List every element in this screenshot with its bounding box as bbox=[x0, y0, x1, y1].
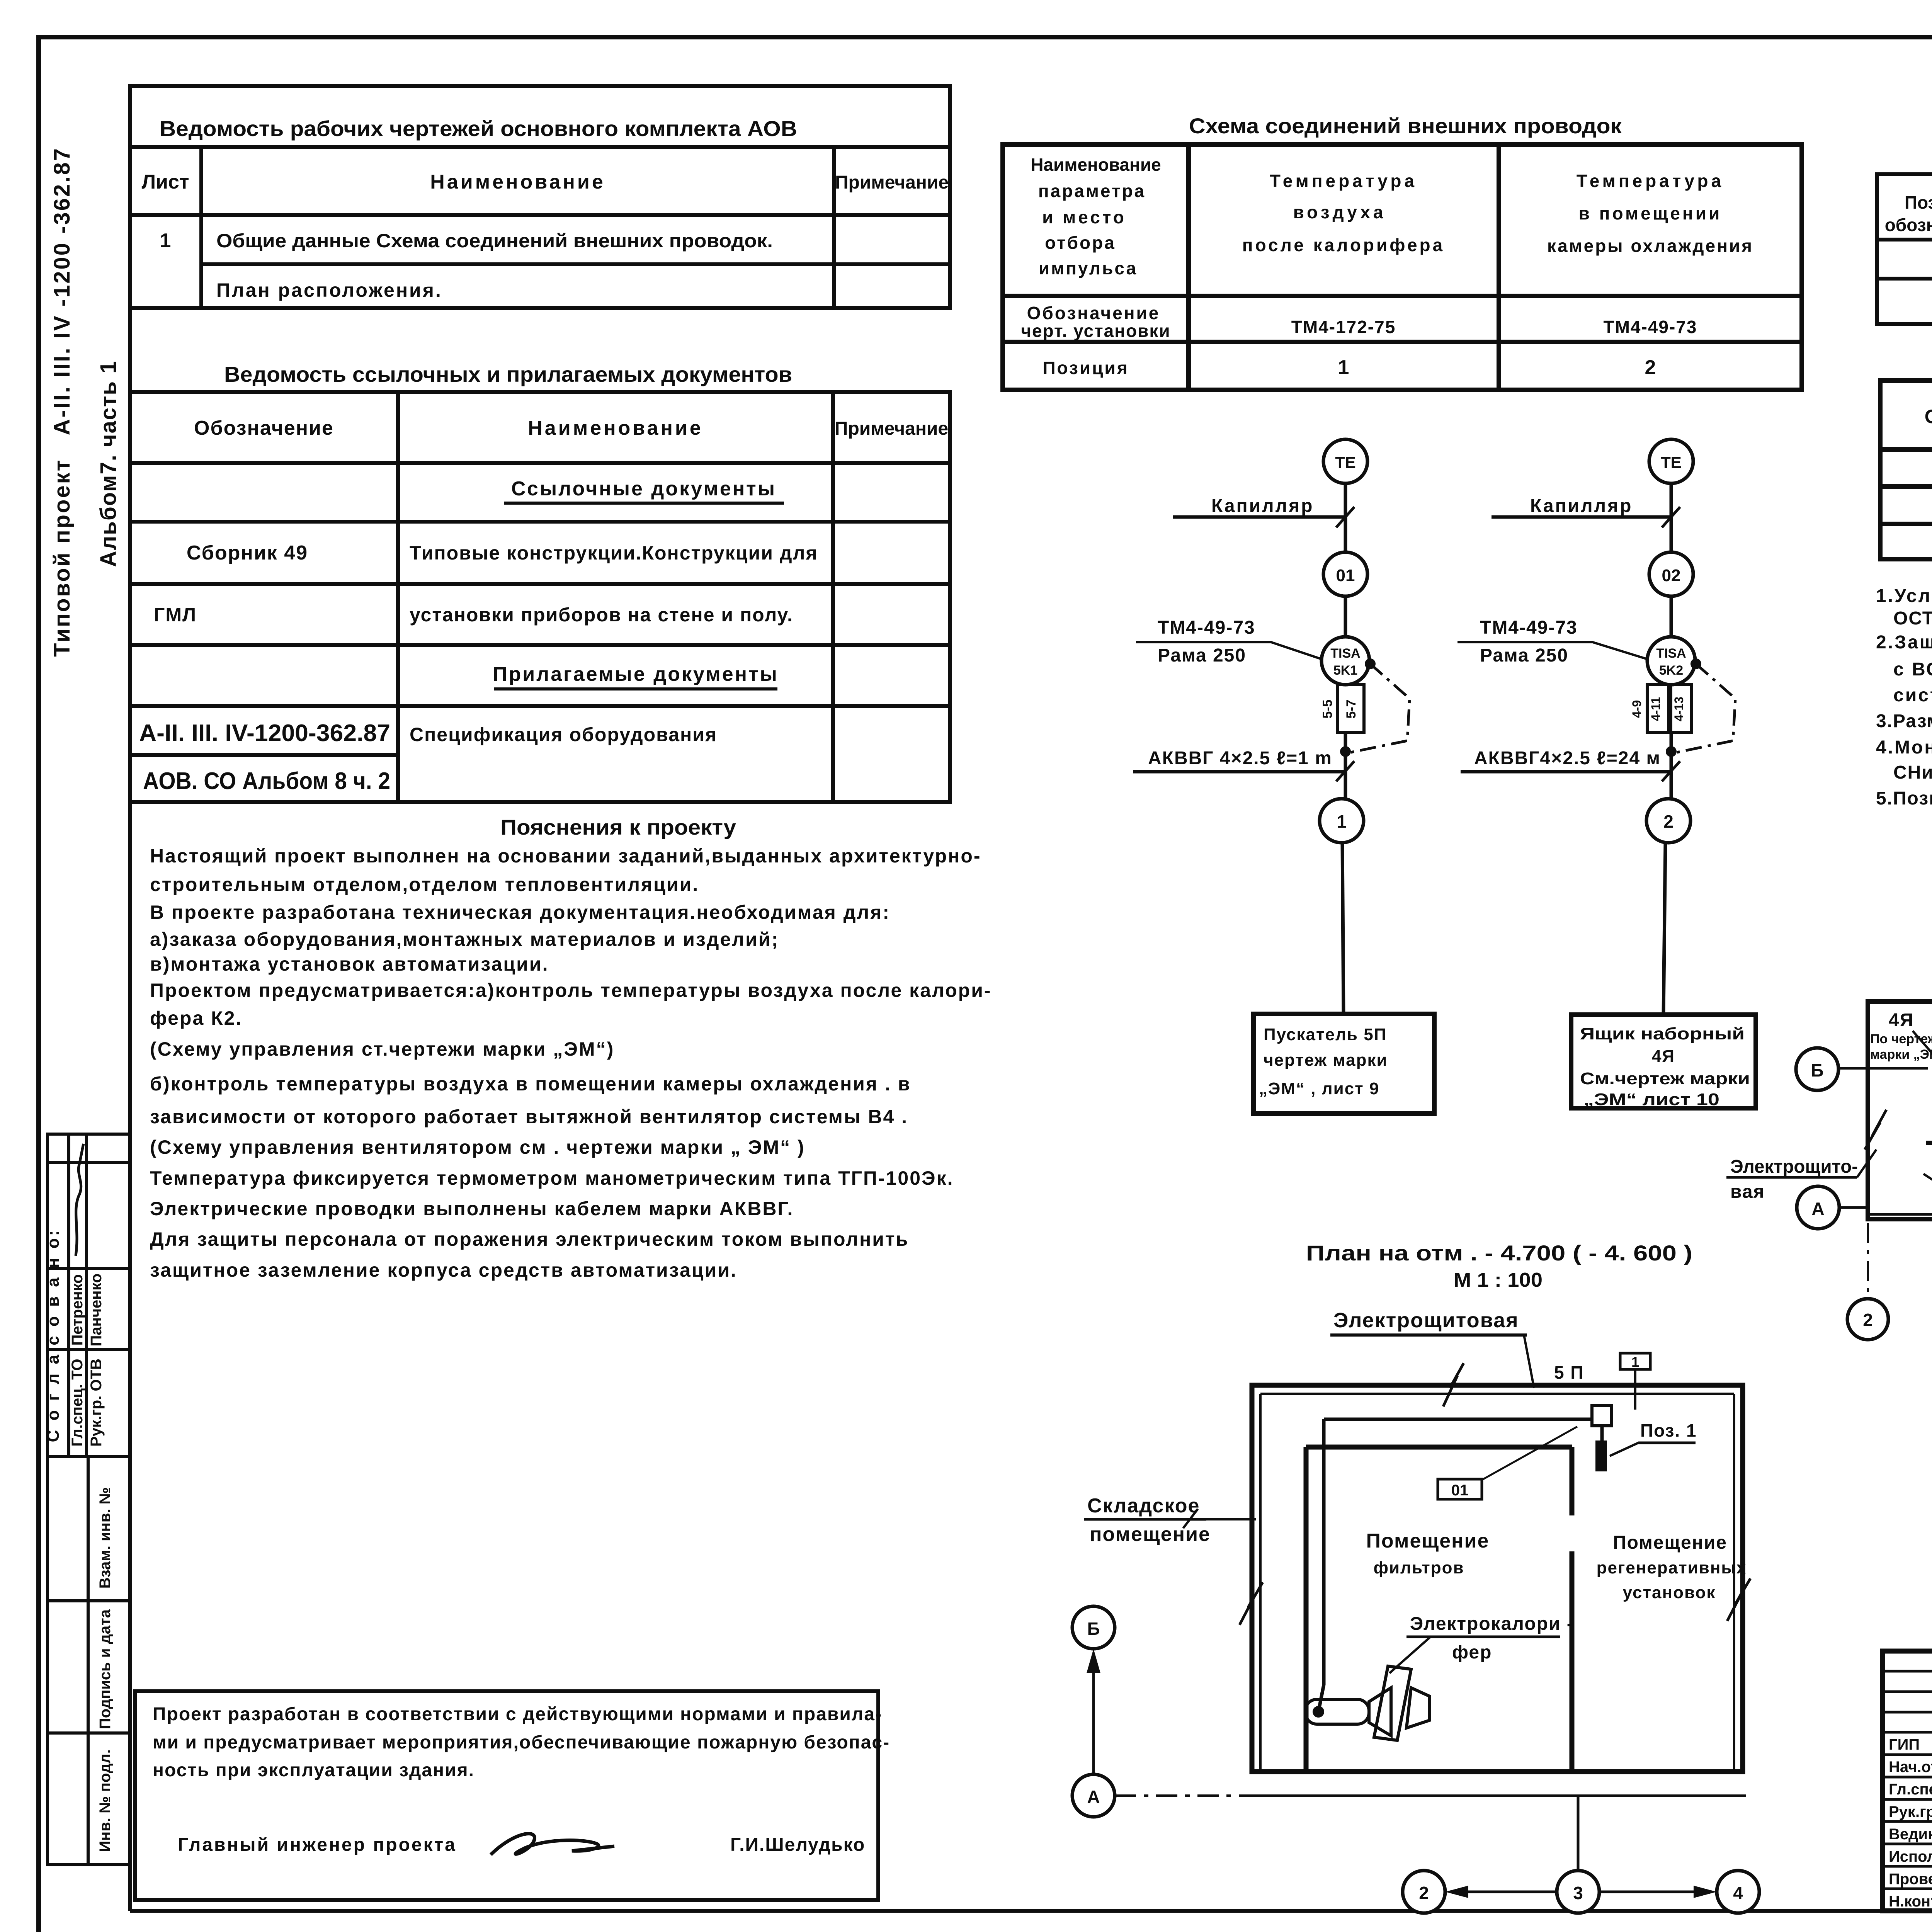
wire TE to 02 bbox=[1670, 483, 1673, 552]
svg-text:Складское: Складское bbox=[1087, 1495, 1200, 1517]
axis A circle (plan 100) bbox=[1072, 1774, 1115, 1817]
svg-text:1: 1 bbox=[1631, 1354, 1639, 1370]
svg-text:3: 3 bbox=[1573, 1883, 1583, 1903]
leader TM4-49-73 (left) bbox=[1136, 642, 1322, 659]
svg-text:Подпись и дата: Подпись и дата bbox=[97, 1609, 114, 1729]
stamp signature scribble bbox=[76, 1144, 83, 1256]
position circle 1 bbox=[1320, 799, 1364, 843]
svg-text:Вединж.: Вединж. bbox=[1889, 1826, 1932, 1843]
svg-text:„ЭМ“ лист 10: „ЭМ“ лист 10 bbox=[1583, 1090, 1719, 1109]
svg-text:Капилляр: Капилляр bbox=[1211, 496, 1314, 516]
svg-text:5.Позиция приборов дана по: 5.Позиция приборов дана по спецификации … bbox=[1876, 788, 1932, 809]
cable run (plan 100) bbox=[1318, 1419, 1602, 1712]
cable label line (left) bbox=[1133, 770, 1345, 774]
svg-text:установок: установок bbox=[1623, 1583, 1716, 1602]
svg-text:фер: фер bbox=[1452, 1642, 1492, 1663]
axis A dash line bbox=[1115, 1794, 1252, 1797]
wire down to box 4Ya bbox=[1663, 843, 1665, 1015]
flag 01 bbox=[1438, 1479, 1482, 1499]
axis A line (plan 100) bbox=[1252, 1794, 1746, 1797]
svg-text:б)контроль температуры возд: б)контроль температуры воздуха в помещен… bbox=[150, 1073, 911, 1095]
legend table bbox=[1880, 381, 1932, 559]
svg-text:TE: TE bbox=[1661, 453, 1682, 471]
cable label line (right) bbox=[1461, 770, 1671, 774]
svg-text:4Я: 4Я bbox=[1652, 1047, 1675, 1066]
dash-dot link (right) bbox=[1677, 664, 1735, 752]
svg-text:5-5: 5-5 bbox=[1320, 699, 1335, 718]
svg-text:(Схему управления ст.чертежи: (Схему управления ст.чертежи марки „ЭМ“) bbox=[150, 1038, 614, 1060]
left chain bbox=[1133, 439, 1410, 1014]
inner frame left vertical bbox=[128, 86, 132, 1911]
svg-text:Взам. инв. №: Взам. инв. № bbox=[97, 1487, 114, 1588]
svg-text:импульса: импульса bbox=[1039, 258, 1138, 278]
device circle 02 bbox=[1649, 552, 1693, 596]
svg-text:Ведомость ссылочных и прилагае: Ведомость ссылочных и прилагаемых докуме… bbox=[224, 362, 792, 386]
dash-dot link (left) bbox=[1351, 664, 1410, 752]
schema parameter table bbox=[1003, 145, 1802, 390]
junction dot (left chain top) bbox=[1365, 658, 1376, 669]
svg-text:Провер.: Провер. bbox=[1889, 1871, 1932, 1888]
starter 5P symbol bbox=[1592, 1406, 1611, 1426]
svg-text:регенеративных: регенеративных bbox=[1597, 1558, 1747, 1577]
axis circles 2-8 (plan 200) bbox=[1847, 1299, 1932, 1340]
svg-text:Температура фиксируется терм: Температура фиксируется термометром мано… bbox=[150, 1167, 954, 1189]
svg-text:А-II. III. IV-1200-362.87: А-II. III. IV-1200-362.87 bbox=[139, 720, 390, 747]
svg-text:Позиция: Позиция bbox=[1043, 358, 1129, 378]
svg-text:АОВ. СО Альбом 8 ч. 2: АОВ. СО Альбом 8 ч. 2 bbox=[143, 768, 390, 794]
svg-text:Пояснения к проекту: Пояснения к проекту bbox=[500, 815, 736, 839]
svg-text:ТМ4-172-75: ТМ4-172-75 bbox=[1291, 317, 1396, 337]
left stamp column box bbox=[48, 1134, 130, 1865]
thermostat TISA 5K1 circle bbox=[1321, 637, 1369, 685]
svg-text:TE: TE bbox=[1335, 453, 1356, 471]
wire 01 to TISA bbox=[1344, 596, 1347, 638]
svg-text:ми и предусматривает меропри: ми и предусматривает мероприятия,обеспеч… bbox=[153, 1732, 890, 1753]
svg-text:Обозначение: Обозначение bbox=[1027, 303, 1160, 323]
svg-text:2: 2 bbox=[1863, 1310, 1873, 1330]
thermostat TISA 5K2 circle bbox=[1647, 637, 1695, 685]
svg-text:Спецификация оборудования: Спецификация оборудования bbox=[410, 724, 717, 745]
terminal boxes 4-11 4-13 bbox=[1647, 685, 1668, 733]
svg-text:а)заказа оборудования,монтажн: а)заказа оборудования,монтажных материал… bbox=[150, 929, 779, 950]
junction dot (right chain cable) bbox=[1666, 746, 1677, 757]
plan 1:100 walls bbox=[1252, 1385, 1743, 1772]
device Poz.1 (black) bbox=[1595, 1440, 1607, 1471]
svg-text:Общие данные Схема соединений: Общие данные Схема соединений внешних пр… bbox=[216, 230, 773, 252]
svg-text:ГМЛ: ГМЛ bbox=[154, 604, 197, 626]
svg-text:воздуха: воздуха bbox=[1293, 202, 1386, 222]
svg-text:Гл.спец. ТО: Гл.спец. ТО bbox=[69, 1359, 86, 1446]
svg-text:1: 1 bbox=[1338, 356, 1349, 379]
terminal box 5-7 (left chain) bbox=[1337, 685, 1364, 733]
svg-text:TISA: TISA bbox=[1656, 646, 1686, 661]
svg-text:2: 2 bbox=[1663, 811, 1673, 832]
svg-text:Электрокалори -: Электрокалори - bbox=[1410, 1614, 1574, 1634]
svg-text:Типовой проект А-II. III. IV: Типовой проект А-II. III. IV -1200 -362.… bbox=[49, 147, 75, 657]
table 2: vedomost ssylochnykh dokumentov bbox=[130, 392, 950, 802]
svg-text:В проекте разработана технич: В проекте разработана техническая докуме… bbox=[150, 901, 890, 923]
starter box (Puskatel 5P) bbox=[1253, 1014, 1434, 1114]
svg-text:1.Условные обозначения -приб: 1.Условные обозначения -приборов и средс… bbox=[1876, 586, 1932, 606]
axis circles 2 3 4 (plan 100) bbox=[1403, 1871, 1445, 1913]
svg-text:Температура: Температура bbox=[1577, 171, 1724, 191]
svg-text:систем автоматизации техноло: систем автоматизации технологических про… bbox=[1893, 685, 1932, 706]
svg-text:Настоящий проект выполнен н: Настоящий проект выполнен на основании з… bbox=[150, 845, 981, 867]
svg-text:Электрические проводки выпол: Электрические проводки выполнены кабелем… bbox=[150, 1198, 794, 1219]
svg-text:Ящик наборный: Ящик наборный bbox=[1580, 1024, 1745, 1043]
wire TE to 01 bbox=[1344, 483, 1347, 552]
svg-text:строительным отделом,отделом: строительным отделом,отделом тепловентил… bbox=[150, 874, 699, 895]
svg-text:после калорифера: после калорифера bbox=[1242, 235, 1445, 255]
svg-text:Температура: Температура bbox=[1270, 171, 1417, 191]
plan 1:200 building bbox=[1868, 1002, 1932, 1219]
svg-text:отбора: отбора bbox=[1045, 233, 1116, 253]
svg-text:помещение: помещение bbox=[1090, 1523, 1211, 1546]
svg-text:установки приборов на стене: установки приборов на стене и полу. bbox=[410, 604, 793, 626]
signature table texts bbox=[1889, 1736, 1932, 1910]
svg-text:3.Размещение проводок уточн: 3.Размещение проводок уточнить при монта… bbox=[1876, 711, 1932, 731]
svg-text:2: 2 bbox=[1419, 1883, 1429, 1903]
junction dot (right chain top) bbox=[1690, 658, 1701, 669]
svg-text:01: 01 bbox=[1451, 1482, 1469, 1499]
svg-text:в помещении: в помещении bbox=[1579, 203, 1722, 223]
svg-text:с ВСН-205-84 mm СС СССР„Инстру: с ВСН-205-84 mm СС СССР„Инструкция по пр… bbox=[1893, 659, 1932, 680]
svg-text:Примечание: Примечание bbox=[835, 418, 948, 439]
axis circle 3 stem bbox=[1577, 1796, 1580, 1871]
svg-text:Исполн.: Исполн. bbox=[1889, 1848, 1932, 1865]
svg-text:Н.контр.: Н.контр. bbox=[1889, 1893, 1932, 1910]
svg-text:Ведомость рабочих чертежей осн: Ведомость рабочих чертежей основного ком… bbox=[160, 116, 797, 141]
svg-text:Проектом предусматривается:а): Проектом предусматривается:а)контроль те… bbox=[150, 980, 992, 1001]
svg-text:Помещение: Помещение bbox=[1366, 1530, 1490, 1552]
capillary line (left) bbox=[1173, 515, 1345, 519]
svg-text:План на отм . - 4.700 ( -: План на отм . - 4.700 ( - 4. 600 ) bbox=[1306, 1241, 1692, 1265]
wire TISA box to junction (right) bbox=[1670, 733, 1673, 799]
svg-text:С о г л а с о в а н о:: С о г л а с о в а н о: bbox=[44, 1228, 63, 1442]
title block outer bbox=[1883, 1651, 1932, 1911]
svg-text:02: 02 bbox=[1662, 566, 1681, 585]
svg-text:АКВВГ 4×2.5 ℓ=1 m: АКВВГ 4×2.5 ℓ=1 m bbox=[1148, 748, 1332, 769]
svg-text:Панченко: Панченко bbox=[88, 1274, 105, 1347]
svg-text:Рук.гр: Рук.гр bbox=[1889, 1803, 1932, 1820]
svg-text:Лист: Лист bbox=[142, 171, 189, 193]
chief engineer signature bbox=[491, 1834, 614, 1855]
svg-text:параметра: параметра bbox=[1038, 181, 1146, 201]
svg-text:фильтров: фильтров bbox=[1373, 1558, 1464, 1577]
svg-text:М 1 : 100: М 1 : 100 bbox=[1454, 1269, 1543, 1291]
svg-text:TISA: TISA bbox=[1330, 646, 1360, 661]
wire TISA box to junction bbox=[1344, 733, 1347, 799]
flag 1 bbox=[1620, 1353, 1650, 1369]
sensor TE circle (right) bbox=[1649, 439, 1693, 483]
svg-text:4Я: 4Я bbox=[1889, 1010, 1914, 1031]
right chain bbox=[1458, 439, 1735, 1015]
materials table (top right) bbox=[1877, 174, 1932, 324]
svg-text:2.Защитное заземление средст: 2.Защитное заземление средств автоматиза… bbox=[1876, 632, 1932, 653]
svg-text:Проект разработан в соответс: Проект разработан в соответствии с дейст… bbox=[153, 1704, 882, 1725]
svg-text:5K1: 5K1 bbox=[1333, 663, 1357, 678]
svg-text:1: 1 bbox=[160, 230, 171, 252]
position circle 2 bbox=[1646, 799, 1690, 843]
svg-text:Обозначение: Обозначение bbox=[1925, 406, 1932, 427]
svg-text:План расположения.: План расположения. bbox=[216, 279, 442, 301]
svg-text:в)монтажа установок автомат: в)монтажа установок автоматизации. bbox=[150, 953, 549, 975]
svg-text:Альбом7. часть 1: Альбом7. часть 1 bbox=[96, 361, 121, 567]
bottom left note box bbox=[135, 1691, 878, 1900]
axis A line and circle (plan 200) bbox=[1838, 1206, 1868, 1209]
svg-text:Ссылочные документы: Ссылочные документы bbox=[511, 478, 776, 500]
signature table rows bbox=[1883, 1671, 1932, 1889]
svg-text:Главный инженер проекта: Главный инженер проекта bbox=[178, 1835, 457, 1855]
svg-text:ГИП: ГИП bbox=[1889, 1736, 1920, 1753]
svg-text:АКВВГ4×2.5 ℓ=24 м: АКВВГ4×2.5 ℓ=24 м bbox=[1474, 748, 1661, 769]
svg-text:Наименование: Наименование bbox=[528, 417, 703, 439]
svg-text:5 П: 5 П bbox=[1554, 1362, 1584, 1383]
svg-text:вая: вая bbox=[1730, 1182, 1765, 1202]
svg-text:защитное заземление корпуса: защитное заземление корпуса средств авто… bbox=[150, 1259, 737, 1281]
svg-text:Пускатель 5П: Пускатель 5П bbox=[1264, 1025, 1387, 1044]
axis B circle (plan 100) bbox=[1072, 1606, 1115, 1649]
arrows between axis circles bbox=[1451, 1891, 1557, 1893]
svg-text:чертеж марки: чертеж марки bbox=[1264, 1051, 1388, 1070]
svg-text:4-11: 4-11 bbox=[1649, 697, 1663, 721]
svg-text:Инв. № подл.: Инв. № подл. bbox=[97, 1749, 114, 1852]
svg-text:Петренко: Петренко bbox=[69, 1274, 86, 1346]
notes list bbox=[1876, 586, 1932, 809]
svg-text:5K2: 5K2 bbox=[1659, 663, 1683, 678]
svg-text:А: А bbox=[1811, 1199, 1824, 1219]
svg-text:„ЭМ“ , лист 9: „ЭМ“ , лист 9 bbox=[1259, 1079, 1379, 1098]
svg-text:Электрощитовая: Электрощитовая bbox=[1333, 1309, 1519, 1332]
axis B line and circle (plan 200) bbox=[1816, 1067, 1928, 1070]
svg-text:2: 2 bbox=[1645, 356, 1656, 379]
svg-text:Схема соединений внешних п: Схема соединений внешних проводок bbox=[1189, 114, 1622, 138]
svg-text:камеры охлаждения: камеры охлаждения bbox=[1547, 236, 1753, 256]
inner frame bottom bbox=[130, 1909, 1932, 1913]
svg-text:обознач.: обознач. bbox=[1885, 215, 1932, 235]
outer walls bbox=[1868, 1002, 1932, 1219]
svg-text:Обозначение: Обозначение bbox=[194, 417, 334, 439]
svg-text:(Схему управления вентилято: (Схему управления вентилятором см . черт… bbox=[150, 1136, 805, 1158]
svg-text:и место: и место bbox=[1042, 207, 1126, 227]
axis arrow A to B bbox=[1092, 1655, 1095, 1774]
svg-text:Рук.гр. ОТВ: Рук.гр. ОТВ bbox=[88, 1359, 105, 1447]
svg-text:Б: Б bbox=[1811, 1060, 1823, 1080]
heater symbol (elektrokalorifer) bbox=[1305, 1666, 1430, 1740]
svg-text:ОСТ 36.27-77: ОСТ 36.27-77 bbox=[1893, 608, 1932, 629]
svg-text:зависимости от которого р: зависимости от которого работает вытяжно… bbox=[150, 1106, 908, 1128]
svg-text:Поз. 1: Поз. 1 bbox=[1640, 1420, 1697, 1440]
svg-text:СНиП 3.05.07-85 Госстроя СССР: СНиП 3.05.07-85 Госстроя СССР. bbox=[1893, 762, 1932, 783]
svg-text:ТМ4-49-73: ТМ4-49-73 bbox=[1480, 617, 1578, 638]
svg-text:4.Монтаж приборов и средств: 4.Монтаж приборов и средств автоматизаци… bbox=[1876, 737, 1932, 758]
svg-text:ность при эксплуатации зда: ность при эксплуатации здания. bbox=[153, 1760, 474, 1781]
svg-text:Прилагаемые документы: Прилагаемые документы bbox=[493, 663, 779, 685]
break marks (plan 100) bbox=[1443, 1363, 1464, 1406]
sensor TE circle (left) bbox=[1323, 439, 1367, 483]
svg-text:01: 01 bbox=[1336, 566, 1355, 585]
svg-text:Гл.спец: Гл.спец bbox=[1889, 1781, 1932, 1798]
inner room walls bbox=[1304, 1447, 1309, 1770]
table 1: vedomost rabochikh chertezhey bbox=[130, 86, 950, 308]
wire 02 to TISA bbox=[1670, 596, 1673, 637]
axis grid dash lines (plan 200) bbox=[1868, 1223, 1932, 1298]
svg-text:4-9: 4-9 bbox=[1630, 700, 1644, 718]
svg-text:ТМ4-49-73: ТМ4-49-73 bbox=[1604, 317, 1697, 337]
svg-text:Наименование: Наименование bbox=[430, 171, 605, 193]
svg-text:4: 4 bbox=[1733, 1883, 1743, 1903]
junction box (Yashchik nabornyy 4Ya) bbox=[1571, 1015, 1756, 1108]
svg-text:Типовые конструкции.Конструкци: Типовые конструкции.Конструкции для bbox=[410, 542, 818, 564]
svg-text:Б: Б bbox=[1087, 1619, 1100, 1639]
capillary line (right) bbox=[1492, 515, 1671, 519]
svg-text:Поз.: Поз. bbox=[1905, 192, 1932, 213]
svg-text:А: А bbox=[1087, 1787, 1100, 1807]
device circle 01 bbox=[1323, 552, 1367, 596]
svg-text:Капилляр: Капилляр bbox=[1530, 496, 1633, 516]
svg-text:Наименование: Наименование bbox=[1031, 155, 1161, 175]
svg-text:Электрощито-: Электрощито- bbox=[1730, 1156, 1858, 1177]
svg-text:1: 1 bbox=[1337, 811, 1347, 832]
svg-text:Рама 250: Рама 250 bbox=[1158, 645, 1246, 666]
svg-text:ТМ4-49-73: ТМ4-49-73 bbox=[1158, 617, 1255, 638]
svg-text:Нач.отд: Нач.отд bbox=[1889, 1759, 1932, 1776]
svg-text:5-7: 5-7 bbox=[1344, 699, 1359, 718]
svg-text:Для защиты персонала от по: Для защиты персонала от поражения электр… bbox=[150, 1228, 909, 1250]
svg-text:Помещение: Помещение bbox=[1613, 1532, 1727, 1553]
junction dot (left chain cable) bbox=[1340, 746, 1351, 757]
svg-text:Примечание: Примечание bbox=[835, 172, 949, 193]
svg-text:марки „ЭМ“: марки „ЭМ“ bbox=[1870, 1047, 1932, 1062]
svg-text:См.чертеж марки: См.чертеж марки bbox=[1580, 1069, 1750, 1088]
svg-text:фера К2.: фера К2. bbox=[150, 1007, 242, 1029]
svg-text:черт. установки: черт. установки bbox=[1021, 321, 1170, 341]
svg-text:Сборник 49: Сборник 49 bbox=[187, 542, 308, 564]
svg-text:Г.И.Шелудько: Г.И.Шелудько bbox=[730, 1835, 865, 1855]
leader TM4-49-73 (right) bbox=[1458, 642, 1648, 659]
svg-text:4-13: 4-13 bbox=[1672, 697, 1686, 721]
wire down to starter box bbox=[1342, 843, 1344, 1014]
poyasneniya body bbox=[150, 845, 992, 1281]
svg-text:Рама 250: Рама 250 bbox=[1480, 645, 1568, 666]
